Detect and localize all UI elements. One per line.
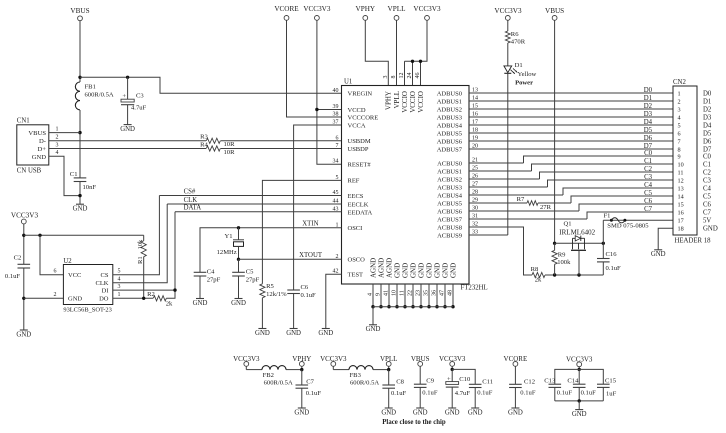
svg-text:OSCI: OSCI [348,225,363,232]
svg-text:12MHz: 12MHz [217,249,237,256]
svg-text:C8: C8 [396,379,404,386]
junction DATA/DI [173,288,176,291]
svg-text:0.1uF: 0.1uF [581,389,597,396]
svg-text:D5: D5 [644,127,653,134]
svg-text:ADBUS7: ADBUS7 [437,146,463,153]
svg-text:TEST: TEST [348,272,364,279]
svg-text:GND: GND [255,330,270,337]
svg-text:RESET#: RESET# [348,162,372,169]
svg-text:100k: 100k [557,259,571,266]
svg-text:0.1uF: 0.1uF [301,292,317,299]
U1 bottom GND pin wires and bus [372,284,374,307]
svg-text:C2: C2 [703,169,712,176]
svg-text:ACBUS1: ACBUS1 [437,168,462,175]
svg-text:GND: GND [572,411,587,418]
wire U1 VCCA pin 37 to C6 [294,125,342,290]
junction Y1 bottom [237,258,240,261]
svg-text:D+: D+ [38,146,47,153]
svg-text:11: 11 [678,169,684,176]
svg-text:GND: GND [401,263,409,278]
CN1 pin 3 wire D+ to R4 [49,148,206,150]
svg-text:R1: R1 [137,256,144,264]
svg-text:C16: C16 [606,251,618,258]
svg-text:GND: GND [413,409,428,416]
connector CN2 HEADER 18 box [673,86,697,235]
svg-text:D1: D1 [644,95,652,102]
capacitor C15 1uF [597,383,610,385]
junction VCCD tap [315,108,318,111]
svg-text:VCCD: VCCD [348,107,366,114]
svg-text:CN USB: CN USB [17,168,42,175]
svg-text:39: 39 [333,104,339,110]
svg-text:VCC3V3: VCC3V3 [413,5,441,13]
svg-text:2: 2 [678,98,681,105]
svg-text:2: 2 [56,135,59,141]
ground below C5 [235,298,243,300]
resistor R2 2k [153,296,166,301]
junction FB1/CN1-VBUS [78,131,81,134]
svg-text:4: 4 [56,150,59,156]
U2 DO pin 1 wire [113,297,153,299]
svg-text:Yellow: Yellow [518,71,537,78]
svg-text:CLK: CLK [184,197,198,204]
ground below C2 [20,329,28,331]
junction C1/GND wire [78,194,81,197]
ground below C12 [511,407,519,409]
svg-text:C5: C5 [644,190,653,197]
junction bottom rail [578,399,581,402]
svg-text:SMD 075-0805: SMD 075-0805 [607,223,649,230]
svg-text:U1: U1 [344,79,352,86]
resistor R3 10R (USBDM) [206,138,220,143]
svg-text:1: 1 [678,90,681,97]
svg-text:D0: D0 [703,90,712,97]
wire CN2 pin 18 to ground [658,228,673,250]
svg-text:C10: C10 [459,376,471,383]
junction R1/DO [142,297,145,300]
svg-text:GND: GND [318,330,333,337]
wires ACBUS0-7 to CN2 (nets C0-C7) [469,162,524,164]
wire to R1 pull-up [24,234,144,236]
svg-text:GND: GND [417,263,425,278]
ground below C8 [385,407,393,409]
svg-text:AGND: AGND [377,258,385,278]
svg-text:XTOUT: XTOUT [299,252,323,259]
svg-text:C0: C0 [703,153,712,160]
svg-text:GND: GND [73,206,88,213]
svg-text:0.1uF: 0.1uF [422,390,438,397]
svg-text:R6: R6 [511,31,519,38]
svg-text:ADBUS6: ADBUS6 [437,138,463,145]
wires ADBUS0-7 to CN2 (nets D0-D7) [469,92,673,94]
resistor R7 27R on ACBUS5 [527,201,538,206]
svg-text:D7: D7 [703,146,712,153]
svg-text:C4: C4 [703,185,712,192]
svg-text:FB3: FB3 [350,372,362,379]
svg-text:3: 3 [56,142,59,148]
svg-text:D-: D- [39,138,46,145]
svg-text:10R: 10R [224,141,236,148]
wire Q1 gate down [578,250,580,275]
svg-text:9: 9 [678,153,681,160]
svg-text:Y1: Y1 [225,233,233,240]
svg-text:DO: DO [99,296,109,303]
svg-text:4.7uF: 4.7uF [131,105,147,112]
capacitor C2 0.1uF [18,263,31,265]
svg-text:VCCIO: VCCIO [417,91,425,113]
svg-text:D1: D1 [703,98,711,105]
svg-text:OSCO: OSCO [348,257,366,264]
svg-text:34: 34 [333,159,339,165]
svg-text:C15: C15 [605,378,617,385]
svg-text:GND: GND [294,409,309,416]
wire R3 to U1 USBDM pin 6 [221,140,342,142]
svg-text:C1: C1 [70,171,78,178]
svg-text:2: 2 [54,292,57,298]
CN1 pin 1 wire VBUS [49,132,80,134]
CN1 pin 2 wire D- to R3 [49,140,206,142]
svg-text:VCC3V3: VCC3V3 [303,5,331,13]
svg-text:C3: C3 [136,93,144,100]
wire VCC3V3 rail down [23,224,25,264]
svg-text:R8: R8 [531,266,539,273]
svg-text:XTIN: XTIN [302,221,318,228]
svg-text:0.1uF: 0.1uF [391,390,407,397]
svg-text:C3: C3 [703,177,712,184]
svg-text:GND: GND [32,154,47,161]
svg-text:4.7uF: 4.7uF [455,390,471,397]
svg-text:C6: C6 [301,284,309,291]
svg-text:12k/1%: 12k/1% [266,291,287,298]
svg-text:93LC56B_SOT-23: 93LC56B_SOT-23 [63,307,111,314]
svg-text:CS#: CS# [184,188,196,195]
svg-text:GND: GND [441,263,449,278]
svg-text:15: 15 [678,201,684,208]
svg-text:R3: R3 [200,134,208,141]
wire D1 to ACBUS9 [507,73,509,235]
svg-text:HEADER 18: HEADER 18 [675,238,712,245]
svg-text:VCORE: VCORE [274,5,299,13]
svg-text:REF: REF [348,178,360,185]
svg-text:GND: GND [120,126,135,133]
svg-text:ACBUS9: ACBUS9 [437,232,462,239]
svg-text:D3: D3 [703,114,712,121]
svg-text:C7: C7 [703,209,712,216]
svg-text:GND: GND [703,226,718,233]
resistor R5 12k/1% on REF [262,180,341,283]
CN1 pin 4 wire GND [49,156,80,195]
U2 DI pin 3 wire [113,289,175,291]
svg-text:GND: GND [68,296,82,303]
svg-text:C1: C1 [644,158,652,165]
ground below U1 [369,324,377,326]
svg-text:18: 18 [678,226,684,233]
ground below C11 [471,407,479,409]
wire FB1 to CN1 VBUS [79,110,81,178]
capacitor C9 0.1uF [419,366,421,384]
svg-text:D4: D4 [703,122,712,129]
resistor R9 100k [552,250,557,264]
svg-text:CS: CS [101,272,109,279]
svg-text:12: 12 [399,73,405,79]
svg-text:40: 40 [333,88,339,94]
wire to ground [578,401,580,410]
net DATA wire to U1 EEDATA [175,211,342,213]
wire top rail C13-C15 [555,369,604,384]
svg-text:ADBUS0: ADBUS0 [437,90,462,97]
svg-text:37: 37 [333,120,339,126]
svg-text:R9: R9 [558,252,566,259]
ferrite bead FB3 [332,366,334,369]
svg-text:27R: 27R [540,204,552,211]
junction U2 VCC drop [38,234,41,237]
svg-text:USBDP: USBDP [348,146,369,153]
svg-text:VCCA: VCCA [348,122,366,129]
svg-text:EECS: EECS [348,193,364,200]
svg-text:5V: 5V [703,218,711,225]
capacitor C8 0.1uF [388,370,390,385]
svg-text:C3: C3 [644,174,653,181]
svg-text:FT232HL: FT232HL [461,285,488,292]
ground below C4 [196,298,204,300]
svg-text:IRLML6402: IRLML6402 [559,228,595,236]
wire to C11 [452,369,475,384]
svg-text:D6: D6 [703,138,712,145]
svg-text:R7: R7 [517,196,525,203]
svg-text:GND: GND [393,263,401,278]
svg-text:3: 3 [118,284,121,290]
svg-text:GND: GND [286,330,301,337]
svg-text:USBDM: USBDM [348,138,371,145]
svg-text:600R/0.5A: 600R/0.5A [85,92,114,99]
svg-text:CN2: CN2 [673,79,686,86]
svg-text:ACBUS0: ACBUS0 [437,160,462,167]
svg-text:14: 14 [678,193,684,200]
wire bus to ground [372,307,374,325]
ground below TEST [322,328,330,330]
resistor R4 10R (USBDP) [206,146,220,151]
svg-text:ACBUS6: ACBUS6 [437,208,463,215]
svg-text:VCC: VCC [68,272,81,279]
svg-text:ACBUS8: ACBUS8 [437,224,462,231]
svg-text:6: 6 [678,130,681,137]
svg-text:ADBUS3: ADBUS3 [437,114,462,121]
svg-text:6: 6 [336,135,339,141]
ground below CN2 [654,249,662,251]
capacitor C14 0.1uF [573,383,586,385]
wire VPHY to U1 pin 3 [365,20,388,85]
ground below C7 [298,407,306,409]
wire VCORE to U1 VCCCORE pin 38 [287,20,342,117]
capacitor C12 0.1uF [514,366,516,384]
wire R8 to gate node [545,274,603,276]
resistor R1 10k pull-up [141,241,146,257]
svg-text:VCC3V3: VCC3V3 [11,212,39,220]
svg-text:7: 7 [336,143,339,149]
svg-text:1: 1 [118,292,121,298]
svg-text:CLK: CLK [96,280,109,287]
svg-text:GND: GND [231,300,246,307]
svg-text:VBUS: VBUS [545,7,564,15]
wire bottom rail C13-C15 [555,400,604,402]
wire VREGIN net to U1 pin 40 [80,77,342,93]
wire VCC3V3 to U1 VCCIO pins 12/24/46 [405,20,428,61]
wire VPLL to U1 pin 8 [396,20,398,85]
svg-text:FB2: FB2 [263,372,274,379]
net CLK wire to U1 EECLK [167,203,341,205]
capacitor C11 0.1uF [469,383,482,385]
wire TEST pin 42 to ground [326,274,342,328]
svg-text:GND: GND [425,263,433,278]
junction VCCIO taps [411,60,414,63]
svg-text:600R/0.5A: 600R/0.5A [264,379,293,386]
svg-text:C0: C0 [644,150,653,157]
LED D1 Yellow [504,66,512,73]
svg-text:8: 8 [678,146,681,153]
svg-text:GND: GND [433,263,441,278]
svg-text:GND: GND [193,300,208,307]
svg-text:VPHY: VPHY [356,5,376,13]
transistor Q1 IRLML6402 [555,242,604,244]
svg-text:R4: R4 [200,141,208,148]
crystal Y1 12MHz [238,228,240,240]
svg-text:VCCIO: VCCIO [409,91,417,113]
svg-text:GND: GND [409,263,417,278]
wire XTIN from U1 OSCI pin 1 [200,228,342,272]
svg-text:ADBUS4: ADBUS4 [437,122,463,129]
svg-text:DATA: DATA [184,205,202,212]
svg-text:F1: F1 [604,212,611,219]
svg-text:C6: C6 [644,198,653,205]
svg-text:2k: 2k [535,277,542,284]
svg-text:12: 12 [678,177,684,184]
svg-text:R2: R2 [147,291,155,298]
ground below C1 [76,203,84,205]
svg-text:ADBUS1: ADBUS1 [437,98,462,105]
wire R4 to U1 USBDP pin 7 [221,148,342,150]
svg-text:GND: GND [468,409,483,416]
svg-text:ACBUS2: ACBUS2 [437,176,462,183]
junction VPLL/C8 [387,368,390,371]
svg-text:D3: D3 [644,111,653,118]
net CS# wire to U1 EECS [159,195,341,197]
wire to U2 VCC pin 6 [40,235,63,274]
svg-text:7: 7 [678,138,681,145]
wire Q1 drain up to F1 [602,220,604,243]
wire VCC3V3 to U1 VCCD pin 39 and RESET# pin 34 [317,20,342,164]
svg-text:AGND: AGND [385,258,393,278]
svg-text:VCCCORE: VCCCORE [348,114,379,121]
svg-text:EECLK: EECLK [348,201,369,208]
svg-text:5: 5 [678,122,681,129]
svg-text:3: 3 [678,106,681,113]
svg-text:U2: U2 [63,258,72,265]
fuse F1 SMD 075-0805 [603,219,673,221]
svg-text:C4: C4 [644,182,653,189]
svg-text:5: 5 [118,268,121,274]
junction Q1 gate [577,273,580,276]
svg-text:ACBUS5: ACBUS5 [437,200,462,207]
svg-text:D1: D1 [515,62,523,69]
svg-text:D5: D5 [703,130,712,137]
wire VBUS down to FB1 [79,21,81,82]
svg-text:C5: C5 [703,193,712,200]
capacitor C5 27pF [238,259,240,272]
svg-text:C13: C13 [544,378,556,385]
svg-text:0.1uF: 0.1uF [306,390,322,397]
svg-text:GND: GND [366,326,381,333]
svg-text:0.1uF: 0.1uF [606,265,622,272]
EEPROM U2 93LC56B box [63,265,112,305]
svg-text:C9: C9 [426,378,434,385]
wire U2 GND pin 2 [24,297,64,299]
svg-text:0.1uF: 0.1uF [477,389,493,396]
ferrite bead FB2 [245,366,247,369]
svg-text:GND: GND [449,263,457,278]
svg-text:C2: C2 [14,255,22,262]
svg-text:GND: GND [16,331,31,338]
svg-text:600R/0.5A: 600R/0.5A [350,379,379,386]
capacitor C6 0.1uF on VCCA [287,289,300,291]
capacitor C7 0.1uF [301,370,303,385]
svg-text:GND: GND [508,409,523,416]
junction VBUS/Q1/R9 [553,242,556,245]
svg-text:ACBUS4: ACBUS4 [437,192,463,199]
ground below C3 [124,124,132,126]
svg-text:C14: C14 [567,378,579,385]
svg-text:ACBUS7: ACBUS7 [437,216,463,223]
svg-text:ADBUS5: ADBUS5 [437,130,462,137]
capacitor C3 4.7uF [126,76,129,79]
svg-text:ACBUS3: ACBUS3 [437,184,462,191]
junction C10/C11 [451,368,454,371]
junction C2/U2 GND [22,297,25,300]
svg-text:GND: GND [381,409,396,416]
svg-text:1: 1 [56,126,59,132]
svg-text:4: 4 [118,276,121,282]
svg-text:C5: C5 [246,269,254,276]
svg-text:Power: Power [515,79,533,86]
svg-text:13: 13 [678,185,684,192]
op-amp U1 FT232HL body [342,86,470,285]
capacitor C10 4.7uF [451,369,453,381]
wire ACBUS9 from U1 pin 33 [469,234,508,236]
svg-text:6: 6 [54,268,57,274]
capacitor C4 27pF [194,271,207,273]
svg-text:VPLL: VPLL [393,91,401,109]
svg-text:C2: C2 [644,166,653,173]
ground below R5 [258,328,266,330]
svg-text:2k: 2k [166,301,173,308]
svg-text:C4: C4 [207,269,215,276]
svg-text:VBUS: VBUS [70,7,89,15]
svg-text:1uF: 1uF [606,391,617,398]
svg-text:16: 16 [678,209,684,216]
svg-text:VPLL: VPLL [388,5,406,13]
svg-text:27pF: 27pF [246,277,260,284]
ground below C13-C15 [575,409,583,411]
svg-text:AGND: AGND [369,258,377,278]
svg-text:10nF: 10nF [83,184,97,191]
svg-text:0.1uF: 0.1uF [5,273,21,280]
svg-text:C1: C1 [703,161,711,168]
svg-text:DI: DI [102,287,109,294]
svg-text:27pF: 27pF [207,277,221,284]
U2 CS pin 5 wire [113,196,160,275]
svg-text:Q1: Q1 [563,221,571,228]
ground below C6 [290,328,298,330]
connector CN1 box [17,125,49,165]
